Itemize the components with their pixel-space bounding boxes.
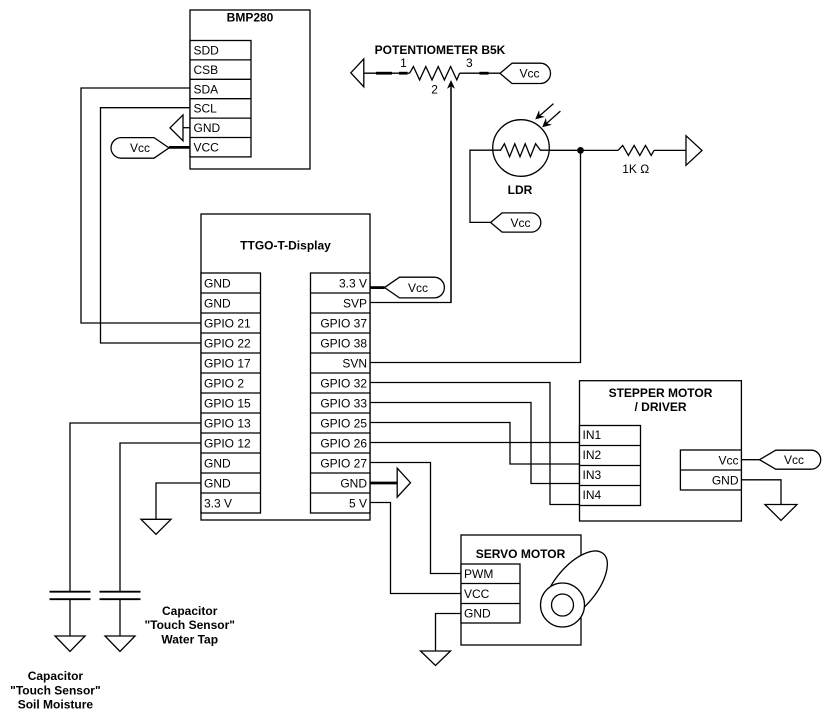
svg-text:GND: GND — [204, 296, 231, 310]
svg-text:BMP280: BMP280 — [227, 11, 274, 25]
svg-text:SDA: SDA — [194, 82, 219, 96]
svg-text:SCL: SCL — [194, 102, 218, 116]
svg-text:CSB: CSB — [194, 63, 219, 77]
svg-text:Vcc: Vcc — [519, 67, 539, 81]
svg-text:PWM: PWM — [464, 567, 493, 581]
svg-text:"Touch Sensor": "Touch Sensor" — [10, 683, 101, 697]
svg-text:GND: GND — [340, 476, 367, 490]
svg-text:GPIO 25: GPIO 25 — [320, 416, 367, 430]
svg-text:GPIO 2: GPIO 2 — [204, 376, 244, 390]
svg-text:SERVO MOTOR: SERVO MOTOR — [476, 547, 566, 561]
svg-text:3: 3 — [466, 56, 473, 70]
svg-text:/ DRIVER: / DRIVER — [634, 400, 686, 414]
svg-text:IN1: IN1 — [583, 428, 602, 442]
svg-text:Vcc: Vcc — [130, 141, 150, 155]
svg-text:IN2: IN2 — [583, 448, 602, 462]
svg-text:GPIO 17: GPIO 17 — [204, 356, 251, 370]
svg-text:POTENTIOMETER B5K: POTENTIOMETER B5K — [375, 43, 506, 57]
svg-text:Water Tap: Water Tap — [161, 633, 218, 647]
svg-text:GND: GND — [194, 121, 221, 135]
svg-text:Vcc: Vcc — [784, 453, 804, 467]
svg-text:GPIO 32: GPIO 32 — [320, 376, 367, 390]
svg-text:GPIO 33: GPIO 33 — [320, 396, 367, 410]
svg-text:GPIO 27: GPIO 27 — [320, 456, 367, 470]
svg-text:GND: GND — [204, 276, 231, 290]
svg-text:Soil Moisture: Soil Moisture — [18, 698, 94, 712]
svg-text:IN3: IN3 — [583, 468, 602, 482]
svg-text:1K Ω: 1K Ω — [622, 162, 649, 176]
svg-text:LDR: LDR — [508, 183, 533, 197]
svg-text:GND: GND — [204, 476, 231, 490]
svg-text:Capacitor: Capacitor — [28, 669, 84, 683]
svg-text:GND: GND — [712, 473, 739, 487]
svg-text:SVP: SVP — [343, 296, 367, 310]
svg-text:GPIO 37: GPIO 37 — [320, 316, 367, 330]
svg-text:GPIO 38: GPIO 38 — [320, 336, 367, 350]
svg-text:3.3 V: 3.3 V — [204, 496, 232, 510]
svg-text:SVN: SVN — [342, 356, 367, 370]
svg-text:"Touch Sensor": "Touch Sensor" — [144, 618, 235, 632]
svg-text:5 V: 5 V — [349, 496, 367, 510]
svg-text:Vcc: Vcc — [718, 453, 738, 467]
svg-text:STEPPER MOTOR: STEPPER MOTOR — [609, 386, 713, 400]
svg-text:GND: GND — [464, 607, 491, 621]
svg-text:GPIO 15: GPIO 15 — [204, 396, 251, 410]
svg-text:Vcc: Vcc — [408, 281, 428, 295]
svg-text:Vcc: Vcc — [510, 216, 530, 230]
svg-text:1: 1 — [400, 56, 407, 70]
svg-text:GPIO 22: GPIO 22 — [204, 336, 251, 350]
svg-text:VCC: VCC — [464, 587, 490, 601]
svg-text:TTGO-T-Display: TTGO-T-Display — [240, 238, 331, 252]
svg-text:3.3 V: 3.3 V — [339, 276, 367, 290]
svg-text:GPIO 12: GPIO 12 — [204, 436, 251, 450]
svg-text:VCC: VCC — [194, 141, 220, 155]
svg-text:Capacitor: Capacitor — [162, 604, 218, 618]
svg-text:GPIO 21: GPIO 21 — [204, 316, 251, 330]
svg-text:GPIO 26: GPIO 26 — [320, 436, 367, 450]
svg-text:IN4: IN4 — [583, 488, 602, 502]
svg-text:GND: GND — [204, 456, 231, 470]
svg-text:GPIO 13: GPIO 13 — [204, 416, 251, 430]
svg-text:SDD: SDD — [194, 44, 220, 58]
svg-text:2: 2 — [431, 83, 438, 97]
